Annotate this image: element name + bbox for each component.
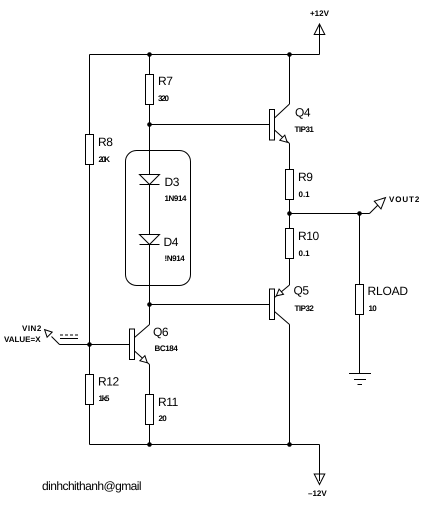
node bottom rail Q5 <box>287 442 292 447</box>
input VIN2 solid mark <box>60 338 78 340</box>
node VIN2 junction <box>87 342 92 347</box>
svg-text:RLOAD: RLOAD <box>368 284 409 298</box>
wire Q4 collector vertical <box>289 55 291 105</box>
svg-text:VIN2: VIN2 <box>22 324 42 333</box>
resistor R10 <box>286 229 294 259</box>
wire D4 to Q6 collector <box>149 245 151 325</box>
output VOUT2 arrow <box>370 200 384 214</box>
transistor Q5 base bar <box>270 289 275 320</box>
wire Q6 emitter to R11 <box>149 365 151 395</box>
svg-text:10: 10 <box>369 304 378 313</box>
resistor R8 <box>86 135 94 165</box>
wire VOUT2 stub <box>360 213 370 215</box>
resistor R12 <box>86 375 94 405</box>
transistor Q6 emitter diagonal <box>135 351 150 365</box>
svg-text:!N914: !N914 <box>165 254 186 263</box>
svg-text:–12V: –12V <box>308 489 327 498</box>
svg-text:BC184: BC184 <box>155 344 179 353</box>
transistor Q6 emitter arrow <box>140 356 147 363</box>
wire RLOAD to ground <box>359 315 361 375</box>
wire D3 to D4 <box>149 185 151 235</box>
svg-text:1N914: 1N914 <box>165 194 188 203</box>
diode D3 <box>140 175 160 185</box>
wire Q5 collector to bottom rail <box>289 325 291 445</box>
node R7 top <box>147 52 152 57</box>
wire left rail middle <box>89 165 91 375</box>
wire VIN2 to Q6 base <box>60 344 130 346</box>
wire R10 to Q5 emitter <box>289 259 291 286</box>
wire output rail <box>290 213 360 215</box>
svg-text:R8: R8 <box>98 135 113 149</box>
transistor Q4 collector diagonal <box>275 104 290 118</box>
svg-text:VOUT2: VOUT2 <box>389 195 420 204</box>
svg-text:Q5: Q5 <box>294 284 310 298</box>
wire R9 to output node <box>289 200 291 229</box>
svg-text:R10: R10 <box>298 229 320 243</box>
svg-text:D3: D3 <box>165 175 180 189</box>
node Q5 base junction <box>147 302 152 307</box>
transistor Q4 emitter diagonal <box>275 130 290 144</box>
svg-text:TIP32: TIP32 <box>295 304 315 313</box>
svg-text:R11: R11 <box>158 395 179 409</box>
transistor Q5 emitter arrow <box>276 289 283 296</box>
input VIN2 arrow <box>52 337 60 345</box>
svg-text:0.1: 0.1 <box>299 249 311 258</box>
node VOUT2 junction <box>357 211 362 216</box>
transistor Q6 collector diagonal <box>135 325 150 338</box>
svg-text:dinhchithanh@gmail: dinhchithanh@gmail <box>42 479 141 493</box>
input VIN2 dashed mark <box>60 334 78 336</box>
supply -12V symbol <box>314 474 325 485</box>
svg-text:R7: R7 <box>158 74 173 88</box>
svg-text:Q6: Q6 <box>153 325 169 339</box>
diode D4 <box>140 235 160 245</box>
wire +12V stem <box>319 24 321 55</box>
wire R7 top stub <box>149 55 151 75</box>
wire bottom rail <box>90 444 320 446</box>
svg-text:20: 20 <box>159 414 168 423</box>
wire -12V stem <box>319 445 321 482</box>
resistor R7 <box>146 75 154 105</box>
supply +12V symbol <box>314 24 325 35</box>
svg-text:D4: D4 <box>164 235 179 249</box>
resistor R9 <box>286 170 294 200</box>
transistor Q5 emitter diagonal <box>275 285 290 298</box>
resistor R11 <box>146 395 154 425</box>
wire top rail <box>90 54 320 56</box>
svg-text:+12V: +12V <box>310 9 330 18</box>
wire R11 to bottom rail <box>149 425 151 445</box>
wire left rail lower <box>89 405 91 445</box>
wire Q4 base <box>150 124 270 126</box>
svg-text:R9: R9 <box>298 170 313 184</box>
transistor Q4 emitter arrow <box>280 135 287 142</box>
svg-text:VALUE=X: VALUE=X <box>4 335 41 344</box>
svg-text:Q4: Q4 <box>295 106 311 120</box>
diode group box <box>126 151 191 286</box>
wire R7 to D3 <box>149 105 151 175</box>
node bottom rail R11 <box>147 442 152 447</box>
ground <box>349 373 371 375</box>
transistor Q6 base bar <box>130 329 135 360</box>
node output mid <box>287 211 292 216</box>
svg-text:TIP31: TIP31 <box>295 125 315 134</box>
node Q4 base / R7 bottom <box>147 122 152 127</box>
node Q4 collector top <box>287 52 292 57</box>
transistor Q4 base bar <box>270 110 275 141</box>
svg-text:0.1: 0.1 <box>299 190 311 199</box>
transistor Q5 collector diagonal <box>275 312 290 325</box>
wire Q5 base <box>150 304 270 306</box>
wire left rail upper <box>89 55 91 136</box>
wire RLOAD top <box>359 214 361 285</box>
wire Q4 emitter to R9 <box>289 144 291 170</box>
resistor RLOAD <box>356 285 364 315</box>
svg-text:R12: R12 <box>98 375 120 389</box>
